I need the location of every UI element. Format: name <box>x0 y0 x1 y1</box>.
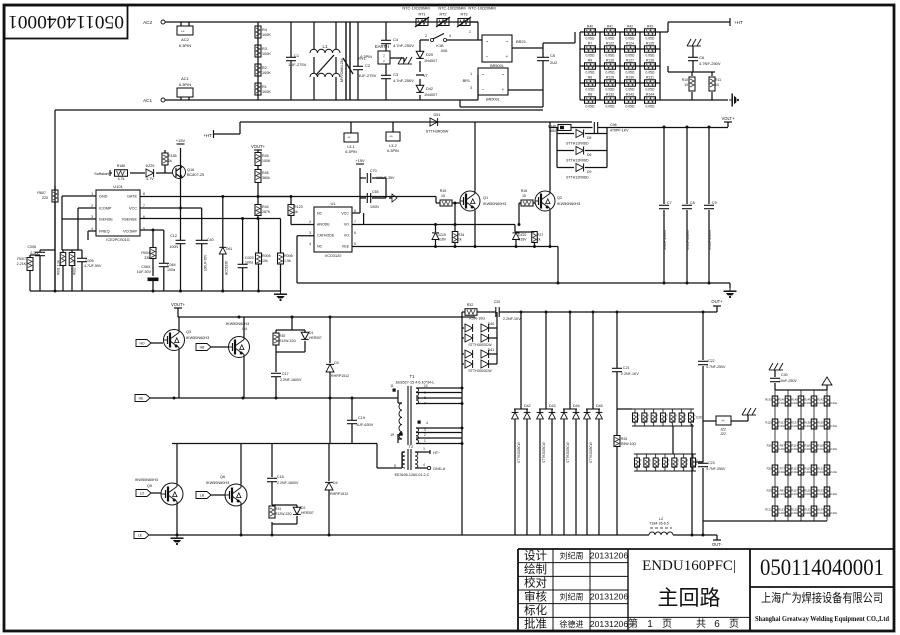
svg-text:R44: R44 <box>262 205 269 209</box>
svg-text:U101: U101 <box>113 184 123 189</box>
svg-text:C19: C19 <box>358 416 365 420</box>
wire neutral return <box>55 109 543 111</box>
svg-text:0.05Ω: 0.05Ω <box>646 71 655 75</box>
capacitor C063 1UF-50V <box>148 278 159 282</box>
wire U101 GND <box>62 195 96 197</box>
svg-text:R006: R006 <box>284 254 293 258</box>
svg-text:EE3405-1260-01.2-C: EE3405-1260-01.2-C <box>395 473 430 477</box>
svg-text:OUT-: OUT- <box>712 542 723 547</box>
svg-text:2.21k: 2.21k <box>817 511 824 515</box>
svg-text:0.05Ω: 0.05Ω <box>646 88 655 92</box>
svg-text:HER307: HER307 <box>309 336 322 340</box>
svg-text:R46: R46 <box>262 171 269 175</box>
svg-text:0.05Ω: 0.05Ω <box>586 88 595 92</box>
svg-text:R149: R149 <box>804 398 811 402</box>
svg-text:D61: D61 <box>226 247 232 251</box>
svg-text:R9: R9 <box>588 58 592 62</box>
svg-text:R6: R6 <box>588 75 592 79</box>
svg-text:10: 10 <box>715 83 719 87</box>
svg-text:4.7nF-250V: 4.7nF-250V <box>393 78 414 83</box>
svg-text:1N4007: 1N4007 <box>424 59 437 63</box>
resistor R16 15 <box>521 200 533 206</box>
resistor R34 1k <box>454 203 456 231</box>
svg-text:R001 1.1K: R001 1.1K <box>57 259 61 275</box>
svg-text:100K: 100K <box>262 52 271 56</box>
svg-text:1UF-275V: 1UF-275V <box>358 73 377 78</box>
svg-text:C063: C063 <box>141 265 150 269</box>
svg-text:220: 220 <box>42 196 48 200</box>
svg-text:R125: R125 <box>791 508 798 512</box>
svg-text:2.21k: 2.21k <box>830 492 837 496</box>
svg-text:470UF-450VX: 470UF-450VX <box>686 229 690 250</box>
svg-text:2U2: 2U2 <box>550 60 558 65</box>
tag HO <box>136 340 151 347</box>
svg-text:BR500L: BR500L <box>490 64 504 68</box>
svg-text:100a: 100a <box>167 268 175 272</box>
svg-text:C26: C26 <box>696 416 702 420</box>
junction dot out- <box>691 534 694 537</box>
svg-text:2.21k: 2.21k <box>804 401 811 405</box>
svg-text:2.21k: 2.21k <box>817 492 824 496</box>
svg-text:R132: R132 <box>606 92 614 96</box>
svg-text:0.05Ω: 0.05Ω <box>626 37 635 41</box>
svg-text:IKW50N60H3: IKW50N60H3 <box>557 202 580 206</box>
svg-text:680: 680 <box>550 129 556 133</box>
zener DZ29 4.7V <box>146 169 154 177</box>
svg-text:2.21k: 2.21k <box>791 401 798 405</box>
svg-text:2: 2 <box>424 433 426 437</box>
wire R145 to C96 <box>571 127 593 129</box>
svg-text:R119: R119 <box>804 467 811 471</box>
svg-text:R33: R33 <box>621 437 627 441</box>
svg-text:D6: D6 <box>587 153 591 157</box>
svg-text:审核: 审核 <box>524 589 547 603</box>
svg-text:4: 4 <box>426 421 428 425</box>
svg-text:R3: R3 <box>262 47 267 51</box>
capacitor C22 4.7NF-250V <box>698 360 708 362</box>
svg-text:L2: L2 <box>659 517 663 521</box>
svg-text:2.21k: 2.21k <box>830 511 837 515</box>
svg-text:D44: D44 <box>573 404 580 408</box>
svg-text:设计: 设计 <box>524 549 547 562</box>
svg-text:9: 9 <box>424 391 426 395</box>
svg-text:VT: VT <box>423 74 429 78</box>
svg-text:+HT: +HT <box>203 133 212 138</box>
resistor R44 287K <box>255 205 261 216</box>
diode D3 RHRP1512 <box>329 317 331 363</box>
svg-text:0.05Ω: 0.05Ω <box>586 54 595 58</box>
svg-text:R42: R42 <box>627 24 633 28</box>
svg-text:R126: R126 <box>606 58 614 62</box>
svg-text:−: − <box>482 87 485 92</box>
resistor R33 R5W-10R <box>614 436 620 447</box>
svg-text:R10: R10 <box>682 78 688 82</box>
svg-text:R43: R43 <box>647 24 653 28</box>
svg-text:4.7nF-250V: 4.7nF-250V <box>393 43 414 48</box>
svg-text:R186: R186 <box>117 164 126 168</box>
svg-text:第: 第 <box>628 617 638 630</box>
wire R46-R44 <box>257 183 259 206</box>
svg-text:360k: 360k <box>262 176 270 180</box>
svg-text:R: R <box>649 459 651 463</box>
svg-text:批准: 批准 <box>524 617 547 631</box>
svg-text:LE: LE <box>138 534 143 538</box>
svg-text:R12W-22Ω: R12W-22Ω <box>279 339 296 343</box>
svg-text:0.05Ω: 0.05Ω <box>606 105 615 109</box>
svg-text:100N: 100N <box>370 205 379 209</box>
svg-text:Q2: Q2 <box>557 196 562 200</box>
svg-text:AC1: AC1 <box>181 76 190 81</box>
svg-text:C22: C22 <box>708 359 715 363</box>
capacitor C2 1UF-275V <box>357 22 359 66</box>
svg-text:共: 共 <box>696 618 706 630</box>
svg-text:C1: C1 <box>294 53 300 58</box>
svg-text:R185: R185 <box>168 154 177 158</box>
svg-text:1: 1 <box>469 30 471 34</box>
junction dots bottom rail <box>176 534 179 537</box>
svg-text:C005: C005 <box>85 259 94 263</box>
svg-text:R145: R145 <box>548 125 556 129</box>
wire pfc ground rail <box>30 290 281 292</box>
svg-text:2: 2 <box>684 417 686 421</box>
wire U101 ICOMP <box>78 207 96 209</box>
transistor Q3 IKW50N60H3 <box>164 330 185 351</box>
svg-text:R002 1.1K: R002 1.1K <box>73 259 77 275</box>
diode D42 STTH2003CW <box>520 312 522 409</box>
wire D29 branch <box>419 40 421 52</box>
svg-text:L3-1: L3-1 <box>347 145 355 149</box>
capacitor C7 470UF-450VX <box>663 127 665 204</box>
svg-text:2.21k: 2.21k <box>830 470 837 474</box>
svg-text:IKW50N60H3: IKW50N60H3 <box>135 478 158 482</box>
svg-text:4: 4 <box>449 34 451 38</box>
svg-text:2.21k: 2.21k <box>778 401 785 405</box>
svg-text:R12W-22Ω: R12W-22Ω <box>275 512 292 516</box>
svg-text:15: 15 <box>441 194 445 198</box>
svg-text:2: 2 <box>658 462 660 466</box>
resistor R001 <box>62 250 64 252</box>
svg-text:STTH2003CW: STTH2003CW <box>566 442 570 463</box>
svg-text:2: 2 <box>666 417 668 421</box>
svg-text:徐德进: 徐德进 <box>560 619 584 629</box>
wire U1 VO gate rail <box>352 224 515 226</box>
wire secondary bus <box>461 312 463 535</box>
svg-text:1: 1 <box>470 72 472 76</box>
svg-text:R113: R113 <box>791 467 798 471</box>
svg-text:2.2NF-1600V: 2.2NF-1600V <box>280 378 302 382</box>
wire U101 VSENSE <box>140 218 281 220</box>
svg-text:RHRP1512: RHRP1512 <box>330 492 348 496</box>
svg-text:6.3PIN: 6.3PIN <box>387 149 399 153</box>
svg-text:4.7V: 4.7V <box>146 177 154 181</box>
chassis ground above C6 <box>687 39 691 46</box>
svg-text:HB: HB <box>200 346 205 350</box>
svg-text:C4: C4 <box>393 37 399 42</box>
connector EARTH 6.3PIN <box>378 51 390 64</box>
svg-text:2: 2 <box>425 34 427 38</box>
svg-text:R127: R127 <box>626 58 634 62</box>
wire U101 VCOMP <box>140 229 164 231</box>
svg-text:R5W-10Ω: R5W-10Ω <box>469 317 485 321</box>
svg-text:R144: R144 <box>646 92 654 96</box>
wire AC2 top rail <box>165 21 478 23</box>
ground (bulk caps) <box>724 288 737 298</box>
wire output top rail <box>462 311 465 313</box>
svg-text:470PF-1KV: 470PF-1KV <box>610 129 629 133</box>
svg-text:R1: R1 <box>262 85 267 89</box>
capacitor C96 470PF-1KV <box>593 122 595 133</box>
svg-text:2: 2 <box>675 417 677 421</box>
svg-text:VCOMP: VCOMP <box>123 230 137 234</box>
resistor R46 360k <box>255 170 261 183</box>
capacitor C003 100n <box>242 219 244 265</box>
svg-text:++: ++ <box>347 136 351 140</box>
svg-text:+15V: +15V <box>355 158 365 163</box>
junction dots secondary <box>461 387 464 390</box>
svg-text:VEE: VEE <box>342 245 350 249</box>
svg-text:−: − <box>486 54 489 59</box>
svg-text:AC2: AC2 <box>181 37 190 42</box>
transistor Q6 IKW50N60H3 <box>225 484 247 506</box>
diode D43 STTH2003CW <box>545 312 547 409</box>
capacitor C4 4.7nF-250V <box>381 39 391 41</box>
capacitor C6 4.7NF-250V <box>688 56 698 58</box>
svg-text:2.21k: 2.21k <box>778 511 785 515</box>
svg-text:2.21k: 2.21k <box>778 424 785 428</box>
wire out- rail <box>462 534 649 536</box>
wire out+ vertical <box>702 312 704 360</box>
svg-text:STTH3R06W: STTH3R06W <box>426 130 449 134</box>
svg-text:2.21k: 2.21k <box>778 492 785 496</box>
svg-text:JZ2: JZ2 <box>720 432 726 436</box>
capacitor C006 2.2N <box>39 250 41 252</box>
svg-text:2.21k: 2.21k <box>817 470 824 474</box>
svg-text:R: R <box>666 414 668 418</box>
svg-text:AC2: AC2 <box>143 20 152 25</box>
capacitor C005 4.7UF-50V <box>81 250 83 258</box>
svg-text:0.05Ω: 0.05Ω <box>646 105 655 109</box>
svg-text:~: ~ <box>486 39 489 44</box>
svg-text:K1B: K1B <box>436 44 444 48</box>
capacitor C8 470UF-450VX <box>686 127 688 204</box>
svg-text:R131: R131 <box>817 467 824 471</box>
wire RT3 to bridge <box>470 21 478 23</box>
connector AC2 6.3PIN <box>177 26 193 35</box>
svg-text:BR21: BR21 <box>516 39 527 44</box>
svg-text:D41: D41 <box>488 348 495 352</box>
svg-text:C9: C9 <box>712 201 717 205</box>
svg-text:C40: C40 <box>207 238 214 242</box>
svg-text:R45: R45 <box>262 154 269 158</box>
svg-text:8: 8 <box>424 396 426 400</box>
capacitor C70 100UF-35V <box>360 177 366 179</box>
svg-text:JZ2: JZ2 <box>720 428 726 432</box>
svg-text:校对: 校对 <box>524 576 547 590</box>
svg-text:2.21k: 2.21k <box>804 470 811 474</box>
svg-text:上海广为焊接设备有限公司: 上海广为焊接设备有限公司 <box>761 590 883 605</box>
svg-text:R67: R67 <box>780 444 786 448</box>
svg-text:R2: R2 <box>262 66 267 70</box>
svg-text:T2: T2 <box>409 444 414 449</box>
svg-text:6: 6 <box>354 231 356 235</box>
svg-text:R130: R130 <box>626 75 634 79</box>
terminal +HT <box>729 18 731 26</box>
svg-text:10k: 10k <box>262 259 268 263</box>
svg-text:R134: R134 <box>817 508 824 512</box>
svg-text:页: 页 <box>662 618 672 630</box>
capacitor C20 2.2NF-1KV <box>495 307 497 317</box>
svg-text:7: 7 <box>354 220 356 224</box>
svg-text:1.5k: 1.5k <box>284 259 291 263</box>
svg-text:R7: R7 <box>588 41 592 45</box>
svg-text:VCC: VCC <box>341 212 349 216</box>
svg-text:2.21k: 2.21k <box>791 511 798 515</box>
resistor R004 33k <box>152 230 154 247</box>
resistor R185 1k <box>164 150 166 153</box>
svg-text:CATHODE: CATHODE <box>317 234 335 238</box>
svg-text:ICE2PCS01G: ICE2PCS01G <box>106 238 129 242</box>
resistor R005 10k <box>258 219 260 254</box>
junction dots vout rail <box>238 316 241 319</box>
svg-text:RT1: RT1 <box>418 13 425 17</box>
svg-text:3: 3 <box>309 231 311 235</box>
svg-text:~: ~ <box>506 39 509 44</box>
svg-text:R132: R132 <box>804 508 811 512</box>
svg-text:2.21k: 2.21k <box>778 470 785 474</box>
svg-text:R115: R115 <box>765 421 772 425</box>
svg-text:2: 2 <box>638 417 640 421</box>
wire U1 VEE clamp rail <box>352 246 558 248</box>
svg-text:0.05Ω: 0.05Ω <box>646 37 655 41</box>
svg-text:1k: 1k <box>294 210 298 214</box>
transistor Q16 BC807-25 <box>173 166 186 179</box>
svg-text:Shanghai Greatway Welding Equi: Shanghai Greatway Welding Equipment CO.,… <box>755 615 889 623</box>
svg-text:R: R <box>677 459 679 463</box>
title block grid <box>518 548 894 550</box>
varistor VT <box>416 74 424 76</box>
svg-text:R: R <box>675 414 677 418</box>
svg-text:0.05Ω: 0.05Ω <box>626 54 635 58</box>
svg-text:R117: R117 <box>791 489 798 493</box>
resistor R807 220 <box>54 186 56 190</box>
svg-text:R143: R143 <box>626 92 634 96</box>
resistor R32 R5W-10R <box>465 309 477 316</box>
capacitor C064 100n <box>163 230 165 263</box>
svg-text:ENDU160PFC|: ENDU160PFC| <box>642 558 736 574</box>
junction dots mid rail <box>173 397 176 400</box>
svg-text:20131206: 20131206 <box>590 619 628 629</box>
svg-text:C23: C23 <box>708 461 715 465</box>
capacitor C21 2.2NF-1KV <box>612 367 622 369</box>
svg-text:L1: L1 <box>323 44 328 49</box>
bridge rectifier BR1 BR500L <box>478 68 508 95</box>
resistor R45 100K <box>255 153 261 166</box>
wire VOLT+ rail <box>598 127 728 129</box>
resistor R15 15 <box>440 200 452 206</box>
svg-text:0.05Ω: 0.05Ω <box>606 71 615 75</box>
relay RY1 <box>345 22 347 100</box>
svg-text:100K: 100K <box>262 90 271 94</box>
wire K1B row <box>420 39 429 41</box>
svg-text:STTH12R06D: STTH12R06D <box>566 176 589 180</box>
drawing number box (top-left) <box>5 6 128 39</box>
svg-text:DZ29: DZ29 <box>146 164 155 168</box>
diode D6 STTH12R06D <box>557 150 574 152</box>
svg-text:D5: D5 <box>587 136 591 140</box>
transistor Q2 IKW50N60H3 <box>535 191 555 211</box>
svg-text:20131206: 20131206 <box>590 551 628 561</box>
wire softstart row <box>110 172 112 174</box>
svg-text:1UF-50V: 1UF-50V <box>137 270 152 274</box>
wire snubber upper <box>291 317 293 330</box>
transistor Q1 IKW50N60H3 <box>460 191 480 211</box>
svg-text:470UF-450VX: 470UF-450VX <box>708 229 712 250</box>
svg-text:2.21k: 2.21k <box>817 424 824 428</box>
svg-text:IKW50N60H3: IKW50N60H3 <box>483 202 506 206</box>
svg-text:6.3PIN: 6.3PIN <box>179 43 191 48</box>
svg-text:R34: R34 <box>458 233 464 237</box>
capacitor C30 10nF-250V <box>774 370 776 377</box>
svg-text:R27: R27 <box>537 233 543 237</box>
svg-text:+: + <box>506 54 509 59</box>
svg-text:R8: R8 <box>588 92 592 96</box>
svg-text:15: 15 <box>522 194 526 198</box>
svg-text:C7: C7 <box>667 201 672 205</box>
svg-text:0.05Ω: 0.05Ω <box>626 105 635 109</box>
svg-text:2: 2 <box>677 462 679 466</box>
svg-text:2.21k: 2.21k <box>830 447 837 451</box>
chassis ground (JZ2) <box>742 408 746 415</box>
resistor R30 R12W-22R <box>273 333 279 345</box>
diode D1 HER307 <box>301 332 309 339</box>
svg-text:470UF-450VX: 470UF-450VX <box>663 229 667 250</box>
capacitor C9 470UF-450VX <box>708 127 710 204</box>
svg-text:R: R <box>656 414 658 418</box>
svg-text:标化: 标化 <box>524 603 547 617</box>
wire bulk cap top <box>663 126 666 129</box>
svg-text:NTC-10Ω20MM: NTC-10Ω20MM <box>438 6 465 11</box>
svg-text:Q5: Q5 <box>147 484 152 488</box>
junction dots top rail <box>520 311 523 314</box>
svg-text:BCD1838: BCD1838 <box>225 261 229 275</box>
connector L3-2 6.3PIN <box>392 122 394 132</box>
svg-text:2.2NF-1KV: 2.2NF-1KV <box>503 317 521 321</box>
svg-text:~: ~ <box>482 72 485 77</box>
svg-text:T184-26-6.5: T184-26-6.5 <box>649 522 669 526</box>
svg-text:R123: R123 <box>778 508 785 512</box>
svg-text:HO: HO <box>139 342 144 346</box>
svg-text:D4: D4 <box>333 481 338 485</box>
svg-text:2.2NF-1KV: 2.2NF-1KV <box>621 372 639 376</box>
wire bridge outputs <box>512 47 543 49</box>
svg-text:IKW50N60H3: IKW50N60H3 <box>226 322 249 326</box>
wire D3 lower <box>329 398 331 443</box>
switch K1B 40A <box>430 38 433 41</box>
svg-text:40A: 40A <box>441 49 448 53</box>
svg-text:STTH3003CW: STTH3003CW <box>468 369 492 373</box>
capacitor C65 100N <box>360 197 366 199</box>
svg-text:DZ20: DZ20 <box>518 233 526 237</box>
svg-text:GND-A: GND-A <box>433 467 446 471</box>
svg-text:U1: U1 <box>330 201 336 206</box>
wire snubber2 to ground bus <box>691 424 693 535</box>
wire U1 vcc to +15V <box>352 212 360 214</box>
svg-text:1: 1 <box>383 59 385 63</box>
tag HB <box>196 344 211 351</box>
svg-text:1k: 1k <box>537 238 541 242</box>
svg-text:+HT: +HT <box>734 20 743 25</box>
snubber resistor row 2 with C25 <box>634 453 696 455</box>
